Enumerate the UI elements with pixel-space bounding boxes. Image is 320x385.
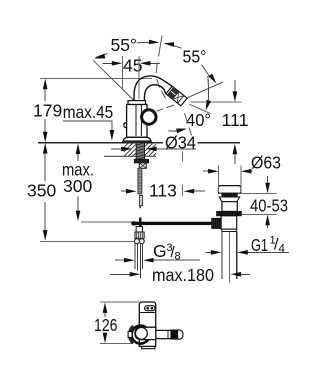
svg-text:111: 111 <box>222 110 249 130</box>
svg-text:55°: 55° <box>183 47 207 67</box>
lever joint <box>139 218 141 230</box>
max.300 dim line <box>77 153 79 161</box>
band <box>222 229 237 231</box>
55#2 leader <box>202 65 211 78</box>
threaded shank through deck <box>136 143 144 160</box>
45 dim <box>103 62 113 64</box>
dash-dot handle axis <box>156 36 165 99</box>
supply pipe <box>135 244 142 279</box>
svg-text:179: 179 <box>33 101 62 121</box>
taper <box>219 197 240 202</box>
svg-text:113: 113 <box>149 181 177 201</box>
55deg arc pieces <box>96 54 108 58</box>
svg-text:350: 350 <box>27 181 56 201</box>
O34 dimension <box>111 148 196 150</box>
350 dim line <box>44 153 46 181</box>
swivel line <box>188 82 223 98</box>
max.180 dim <box>110 273 250 275</box>
40 deg arcs <box>169 130 184 132</box>
svg-text:126: 126 <box>94 315 118 335</box>
G 3/8 dim <box>115 259 200 261</box>
svg-text:G: G <box>153 241 167 261</box>
locknut <box>217 211 242 215</box>
deck top line <box>38 142 240 144</box>
svg-text:40-53: 40-53 <box>250 196 288 216</box>
jet direction line <box>190 104 211 113</box>
40-53 dim <box>242 176 277 228</box>
body <box>139 302 155 346</box>
L1 55-deg tilt line <box>93 60 135 101</box>
max.45 line + drop <box>63 121 112 131</box>
arrowheads left <box>43 79 48 90</box>
cap line <box>139 312 155 314</box>
aerator body <box>166 86 187 106</box>
svg-text:300: 300 <box>63 176 92 196</box>
svg-text:55°: 55° <box>111 35 138 55</box>
spout outer <box>134 76 172 110</box>
svg-text:max.180: max.180 <box>152 265 214 285</box>
ext line supply bottom <box>40 241 134 243</box>
base flange <box>123 137 152 142</box>
handle knob <box>142 110 156 124</box>
126 dim <box>100 302 139 344</box>
rod tip <box>139 196 142 206</box>
collar <box>128 101 146 105</box>
pivot nut <box>212 218 221 228</box>
svg-text:45: 45 <box>123 56 142 76</box>
left bump <box>124 123 127 128</box>
tube in body <box>136 105 141 137</box>
dark rim <box>222 193 237 197</box>
deck section hatch <box>104 143 156 157</box>
Ø63 dim <box>203 166 253 193</box>
ext line rod level <box>81 221 137 223</box>
113 dimension <box>121 152 205 197</box>
G 1 1/4 label <box>251 235 286 256</box>
threaded rod <box>138 168 142 194</box>
spout inner <box>144 85 165 110</box>
hub <box>135 327 156 339</box>
spout tube <box>156 330 178 338</box>
svg-text:40°: 40° <box>186 110 211 130</box>
plug cap <box>218 186 241 194</box>
dark band <box>171 330 178 339</box>
179 dim line <box>44 89 46 102</box>
svg-text:4: 4 <box>279 244 286 256</box>
knob knurl arcs <box>128 325 132 344</box>
pill with dots <box>145 306 155 311</box>
svg-text:Ø34: Ø34 <box>165 133 196 153</box>
lever rod <box>135 222 212 225</box>
svg-text:Ø63: Ø63 <box>251 153 281 173</box>
rounded tip <box>178 330 183 339</box>
G 1 1/4 dim <box>206 251 290 253</box>
spout axis dashes <box>157 105 175 111</box>
neck <box>222 202 237 212</box>
ext line spout top level <box>40 77 152 79</box>
tailpiece <box>222 232 237 280</box>
knob main ring <box>132 326 150 344</box>
DIMENSION TEXTS <box>27 35 288 335</box>
foot <box>142 346 155 348</box>
supply connector <box>136 227 142 232</box>
svg-text:max.45: max.45 <box>63 102 113 122</box>
body <box>221 216 237 229</box>
G 3/8 label <box>153 241 181 263</box>
body <box>127 105 147 138</box>
left tab <box>128 332 132 338</box>
locknut <box>134 159 148 163</box>
111 dim <box>191 80 241 164</box>
